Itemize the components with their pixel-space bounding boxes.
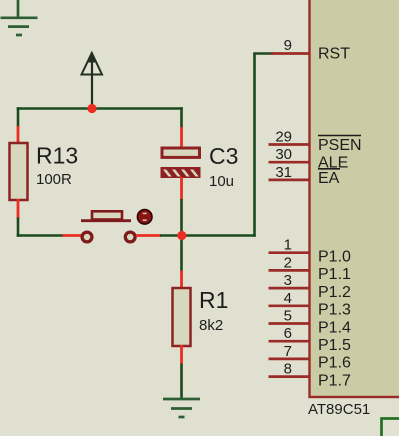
button interactive actuator marker — [137, 210, 152, 225]
svg-text:8k2: 8k2 — [199, 317, 223, 334]
wire: vertical C3 to junction — [180, 199, 183, 272]
svg-text:EA: EA — [318, 170, 340, 187]
pin of R1 (top, red) — [180, 271, 183, 290]
node junction (button / C3 / R1 / RST) — [177, 231, 186, 240]
svg-text:5: 5 — [284, 308, 292, 325]
svg-text:PSEN: PSEN — [318, 137, 362, 154]
pin 6 P1.5 — [269, 340, 311, 343]
wire: left vertical to R13 — [17, 107, 20, 127]
svg-text:2: 2 — [284, 254, 292, 271]
pin 7 P1.6 — [269, 358, 311, 361]
power arrow (VCC) — [82, 52, 103, 109]
svg-text:4: 4 — [284, 290, 292, 307]
svg-text:7: 7 — [284, 343, 292, 360]
svg-text:P1.6: P1.6 — [318, 355, 351, 372]
svg-text:29: 29 — [275, 129, 292, 146]
svg-text:31: 31 — [275, 164, 292, 181]
ground (bottom) — [163, 399, 200, 417]
svg-text:RST: RST — [318, 46, 350, 63]
capacitor C3 (electrolytic) — [161, 148, 201, 178]
pin of C3 (top, red) — [180, 127, 183, 148]
wire: riser to RST pin — [253, 54, 256, 237]
svg-text:R1: R1 — [199, 287, 228, 313]
svg-text:P1.5: P1.5 — [318, 337, 351, 354]
pin of R13 (top, red) — [17, 126, 20, 144]
push button switch — [81, 211, 135, 242]
component box (bottom-right, partial) — [382, 419, 399, 436]
wire: top horizontal (node to R13/C3) — [17, 107, 183, 110]
pin of button (right, red) — [136, 234, 161, 237]
svg-text:P1.0: P1.0 — [318, 249, 351, 266]
pin 3 P1.2 — [269, 287, 311, 290]
resistor R1 — [173, 288, 191, 346]
svg-text:8: 8 — [284, 361, 292, 378]
svg-text:9: 9 — [284, 37, 292, 54]
svg-text:P1.4: P1.4 — [318, 319, 351, 336]
svg-text:6: 6 — [284, 325, 292, 342]
svg-text:R13: R13 — [36, 143, 78, 169]
wire: horizontal into RST pin — [253, 52, 273, 55]
wire: C3/R1 vertical (top of C3) — [180, 107, 183, 128]
svg-text:P1.1: P1.1 — [318, 266, 351, 283]
pin 5 P1.4 — [269, 322, 311, 325]
svg-text:3: 3 — [284, 272, 292, 289]
pin of R1 (bottom, red) — [180, 345, 183, 365]
pin of R13 (bottom, red) — [17, 199, 20, 219]
svg-text:100R: 100R — [36, 171, 72, 188]
pin of C3 (bottom, red) — [180, 177, 183, 200]
pin 31 EA — [269, 179, 311, 182]
wire: left vertical below R13 — [17, 218, 20, 237]
pin 9 RST — [271, 52, 310, 55]
svg-text:10u: 10u — [209, 173, 234, 190]
svg-text:C3: C3 — [209, 143, 238, 169]
pin 29 PSEN — [269, 143, 311, 146]
pin 1 P1.0 — [269, 251, 311, 254]
wire: vertical R1 to ground — [180, 364, 183, 400]
node junction on top wire — [87, 104, 96, 113]
pin 8 P1.7 — [269, 375, 311, 378]
svg-text:30: 30 — [275, 146, 292, 163]
svg-text:P1.7: P1.7 — [318, 372, 351, 389]
svg-text:P1.3: P1.3 — [318, 302, 351, 319]
wire: bottom horizontal right segment to RST riser — [160, 234, 256, 237]
pin 30 ALE — [269, 161, 311, 164]
ground (top-left) — [1, 0, 38, 35]
svg-text:P1.2: P1.2 — [318, 284, 351, 301]
pin of button (left, red) — [63, 234, 82, 237]
svg-text:1: 1 — [284, 237, 292, 254]
svg-text:AT89C51: AT89C51 — [308, 401, 370, 418]
resistor R13 — [10, 143, 28, 200]
wire: bottom horizontal left segment — [17, 234, 64, 237]
pin 4 P1.3 — [269, 304, 311, 307]
pin 2 P1.1 — [269, 269, 311, 272]
microcontroller U1 AT89C51 body — [310, 0, 399, 397]
